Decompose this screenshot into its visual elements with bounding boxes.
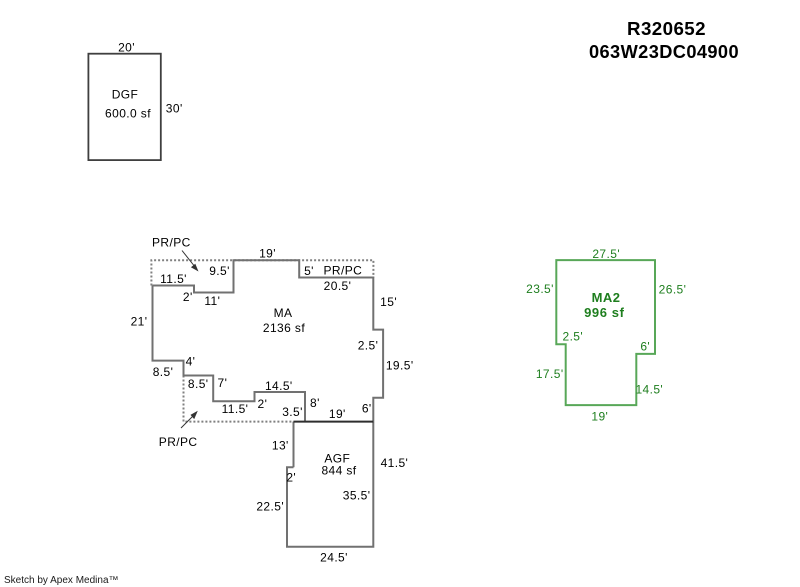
svg-text:20': 20': [118, 41, 135, 55]
svg-text:MA: MA: [274, 306, 293, 320]
svg-text:2136 sf: 2136 sf: [263, 321, 305, 335]
svg-text:5': 5': [304, 264, 314, 278]
svg-text:063W23DC04900: 063W23DC04900: [589, 42, 739, 62]
MA outline solid top and right: [153, 260, 384, 421]
svg-text:14.5': 14.5': [265, 379, 293, 393]
svg-text:R320652: R320652: [627, 19, 706, 39]
svg-text:11.5': 11.5': [222, 402, 249, 416]
svg-text:30': 30': [166, 101, 183, 115]
svg-text:MA2: MA2: [592, 290, 621, 305]
svg-text:17.5': 17.5': [536, 367, 564, 381]
svg-text:2.5': 2.5': [563, 330, 584, 344]
svg-text:23.5': 23.5': [526, 282, 554, 296]
svg-text:844 sf: 844 sf: [321, 464, 356, 478]
svg-text:600.0 sf: 600.0 sf: [105, 107, 151, 121]
svg-text:19': 19': [591, 409, 608, 423]
svg-text:15': 15': [380, 295, 397, 309]
svg-text:13': 13': [272, 438, 289, 452]
svg-text:4': 4': [186, 355, 196, 369]
svg-text:24.5': 24.5': [320, 551, 348, 565]
svg-text:PR/PC: PR/PC: [152, 236, 191, 250]
svg-text:41.5': 41.5': [381, 456, 409, 470]
svg-text:2.5': 2.5': [358, 338, 379, 352]
AGF outline: [287, 422, 373, 547]
svg-text:2': 2': [183, 290, 193, 304]
svg-text:19': 19': [329, 407, 346, 421]
svg-text:19.5': 19.5': [386, 359, 414, 373]
DGF outline: [88, 54, 160, 160]
svg-text:27.5': 27.5': [592, 247, 620, 261]
svg-text:6': 6': [362, 402, 372, 416]
svg-text:11': 11': [204, 294, 220, 308]
svg-text:19': 19': [259, 246, 276, 260]
svg-text:9.5': 9.5': [209, 264, 230, 278]
svg-text:PR/PC: PR/PC: [159, 435, 198, 449]
svg-text:20.5': 20.5': [324, 279, 352, 293]
arrow from bottom PR/PC label: [181, 411, 198, 428]
svg-text:21': 21': [131, 314, 148, 328]
svg-text:8.5': 8.5': [153, 365, 174, 379]
svg-text:6': 6': [640, 340, 650, 354]
svg-text:DGF: DGF: [112, 88, 139, 102]
svg-text:2': 2': [286, 470, 296, 484]
svg-text:3.5': 3.5': [282, 405, 303, 419]
svg-text:7': 7': [218, 376, 228, 390]
AGF top edge dark: [294, 421, 374, 423]
svg-text:26.5': 26.5': [659, 283, 687, 297]
svg-text:11.5': 11.5': [160, 272, 187, 286]
PR/PC porch dashed outline top: [151, 260, 373, 285]
svg-text:996 sf: 996 sf: [584, 305, 625, 320]
PR/PC porch dashed outline bottom: [184, 376, 294, 422]
svg-text:8.5': 8.5': [188, 377, 209, 391]
arrow from top PR/PC label: [182, 251, 199, 272]
svg-text:Sketch by Apex Medina™: Sketch by Apex Medina™: [4, 575, 119, 586]
svg-text:14.5': 14.5': [635, 382, 663, 396]
MA outline solid bottom zigzag and left: [153, 286, 306, 422]
svg-text:8': 8': [310, 396, 320, 410]
svg-text:2': 2': [258, 397, 268, 411]
svg-text:22.5': 22.5': [256, 500, 284, 514]
svg-text:PR/PC: PR/PC: [324, 264, 363, 278]
MA2 outline green: [556, 260, 655, 405]
svg-text:35.5': 35.5': [343, 489, 371, 503]
